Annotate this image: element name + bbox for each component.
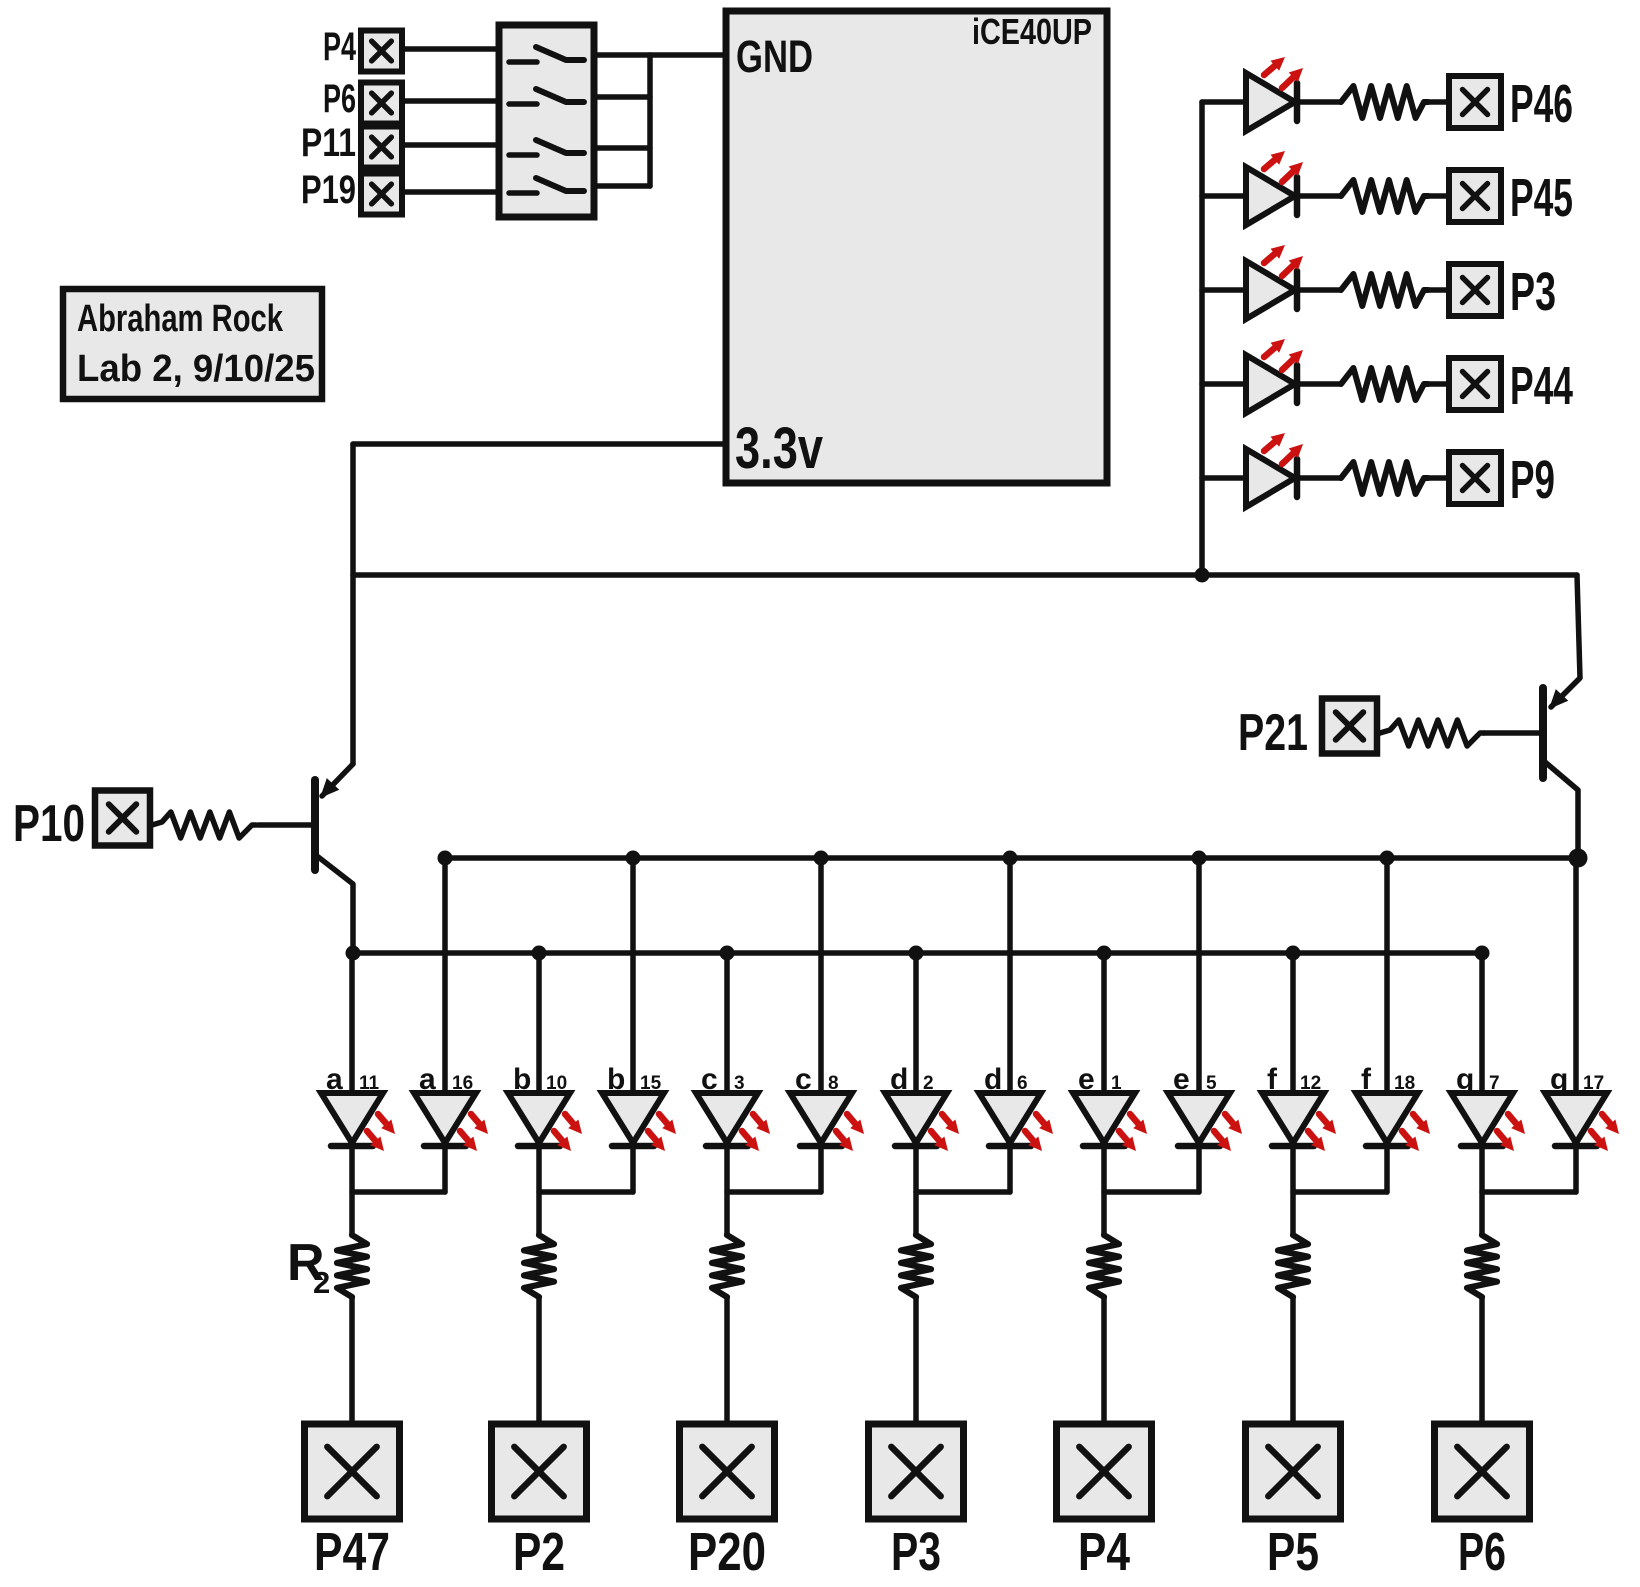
wire to LED f12 — [1290, 953, 1296, 1093]
pin terminal P4 — [361, 31, 402, 72]
pin terminal P3 — [1449, 264, 1501, 316]
resistor R P5 — [1278, 1235, 1308, 1297]
LED d2 cathode bar — [895, 1143, 937, 1150]
wire to LED b10 — [536, 953, 542, 1093]
wire resistor to pin P44 — [1428, 381, 1449, 387]
wire switch 4 output — [594, 183, 650, 189]
switch 1 contact — [509, 59, 537, 65]
LED f12 arrows — [1308, 1114, 1336, 1151]
resistor R P3 — [901, 1235, 931, 1297]
LED c3 arrows — [742, 1114, 770, 1151]
switch 3 lever — [536, 140, 584, 153]
wire to LED a11 — [349, 953, 355, 1093]
LED b15 arrows — [648, 1114, 676, 1151]
wire resistor to P4 — [1101, 1297, 1107, 1424]
LED arrows P44 — [1264, 339, 1303, 370]
resistor R-P3 — [1341, 274, 1428, 306]
switch 4 contact — [509, 190, 537, 196]
wire bus to LED P3 — [1202, 287, 1246, 293]
wire to LED d6 — [1007, 858, 1013, 1093]
wire to LED g17 — [1573, 858, 1579, 1093]
wire LED c3 down — [724, 1146, 730, 1235]
LED D-P3 — [1246, 261, 1295, 319]
resistor R P20 — [712, 1235, 742, 1297]
wire LED P45 to resistor — [1297, 193, 1341, 199]
LED a11 — [321, 1093, 383, 1143]
junction dot upper bus x1010 — [1003, 851, 1018, 866]
wire LED a11 down — [349, 1146, 355, 1235]
resistor R P2 — [524, 1235, 554, 1297]
pin terminal P6 — [361, 83, 402, 124]
LED arrows P3 — [1264, 245, 1303, 276]
wire to LED f18 — [1384, 858, 1390, 1093]
wire LED b15 down — [630, 1146, 636, 1192]
junction dot rail/LED-bus — [1195, 568, 1210, 583]
junction dot Q1/lower-bus — [346, 946, 361, 961]
resistor R-P21 — [1380, 720, 1484, 746]
wire resistor to pin P46 — [1428, 99, 1449, 105]
LED b15 — [602, 1093, 664, 1143]
junction dot upper bus x821 — [814, 851, 829, 866]
LED c8 — [790, 1093, 852, 1143]
pin terminal P3 — [869, 1424, 964, 1519]
junction dot Q2/upper-bus — [1569, 849, 1588, 868]
wire 3.3v to left — [353, 441, 726, 447]
switch box SW1 — [499, 25, 594, 217]
resistor R-P45 — [1341, 180, 1428, 212]
pin terminal P45 — [1449, 170, 1501, 222]
wire to LED e1 — [1101, 953, 1107, 1093]
wire P19 to switch — [402, 189, 499, 195]
wire collector Q2 — [1545, 762, 1578, 858]
svg-text:P47: P47 — [314, 1522, 390, 1582]
resistor R-P46 — [1341, 86, 1428, 118]
resistor R P4 — [1089, 1235, 1119, 1297]
LED e1 — [1073, 1093, 1135, 1143]
LED g7 cathode bar — [1461, 1143, 1503, 1150]
wire to LED g7 — [1479, 953, 1485, 1093]
wire LED d2 down — [913, 1146, 919, 1235]
wire LED f18 down — [1384, 1146, 1390, 1192]
wire LED P3 to resistor — [1297, 287, 1341, 293]
wire 3.3v rail — [353, 572, 1577, 578]
switch 2 lever — [536, 89, 584, 102]
emitter arrow Q1 — [320, 778, 339, 798]
wire bus to GND pin — [650, 52, 726, 58]
LED g17 cathode bar — [1555, 1143, 1597, 1150]
wire LED e5 down — [1196, 1146, 1202, 1192]
wire to LED e5 — [1196, 858, 1202, 1093]
svg-text:P5: P5 — [1267, 1522, 1319, 1582]
wire P4 to switch — [402, 46, 499, 52]
svg-text:P46: P46 — [1510, 74, 1573, 134]
svg-text:P6: P6 — [323, 77, 356, 121]
wire LED g17 down — [1573, 1146, 1579, 1192]
LED b10 arrows — [554, 1114, 582, 1151]
wire pair join f — [1293, 1189, 1387, 1195]
junction dot upper bus x1199 — [1192, 851, 1207, 866]
svg-text:P3: P3 — [1510, 262, 1556, 322]
LED e5 cathode bar — [1178, 1143, 1220, 1150]
LED e5 — [1168, 1093, 1230, 1143]
svg-text:3.3v: 3.3v — [735, 416, 823, 481]
LED D-P9 — [1246, 449, 1295, 507]
wire pair join d — [916, 1189, 1010, 1195]
resistor R P6 — [1467, 1235, 1497, 1297]
svg-text:P11: P11 — [301, 121, 356, 165]
wire base Q1 — [258, 822, 315, 828]
emitter arrow Q2 — [1549, 689, 1568, 709]
svg-text:P44: P44 — [1510, 356, 1573, 416]
wire resistor to P2 — [536, 1297, 542, 1424]
resistor R P47 — [337, 1235, 367, 1297]
transistor Q1 base bar — [311, 780, 319, 870]
switch 4 lever — [536, 178, 584, 191]
LED cathode bar P46 — [1294, 83, 1301, 121]
LED f18 cathode bar — [1366, 1143, 1408, 1150]
junction dot lower bus x1482 — [1475, 946, 1490, 961]
switch 1 lever — [536, 47, 584, 60]
LED arrows P45 — [1264, 151, 1303, 182]
svg-text:iCE40UP: iCE40UP — [972, 11, 1092, 52]
LED d2 — [885, 1093, 947, 1143]
junction dot lower bus x727 — [720, 946, 735, 961]
pin terminal P6 — [1435, 1424, 1530, 1519]
wire resistor to P3 — [913, 1297, 919, 1424]
wire LED bus up — [1199, 102, 1205, 575]
svg-text:P20: P20 — [688, 1522, 766, 1582]
transistor Q2 base bar — [1539, 688, 1547, 778]
LED b15 cathode bar — [612, 1143, 654, 1150]
wire LED e1 down — [1101, 1146, 1107, 1235]
svg-text:P4: P4 — [1078, 1522, 1130, 1582]
FPGA U1 iCE40UP — [726, 11, 1107, 483]
LED d6 cathode bar — [989, 1143, 1031, 1150]
pin terminal P46 — [1449, 76, 1501, 128]
pin terminal P19 — [361, 174, 402, 215]
wire LED P9 to resistor — [1297, 475, 1341, 481]
LED D-P45 — [1246, 167, 1295, 225]
LED b10 — [508, 1093, 570, 1143]
LED a16 cathode bar — [424, 1143, 466, 1150]
pin terminal P44 — [1449, 358, 1501, 410]
LED f18 — [1356, 1093, 1418, 1143]
wire 3.3v down — [350, 444, 356, 764]
wire LED d6 down — [1007, 1146, 1013, 1192]
lower bus wire — [353, 950, 1482, 956]
switch 2 contact — [509, 101, 537, 107]
wire LED g7 down — [1479, 1146, 1485, 1235]
LED arrows P9 — [1264, 433, 1303, 464]
wire pair join e — [1104, 1189, 1199, 1195]
LED c3 cathode bar — [706, 1143, 748, 1150]
wire to LED c8 — [818, 858, 824, 1093]
junction dot lower bus x539 — [532, 946, 547, 961]
LED d6 arrows — [1025, 1114, 1053, 1151]
resistor R-P10 — [152, 812, 256, 838]
LED g7 — [1451, 1093, 1513, 1143]
wire collector Q1 — [317, 856, 353, 953]
LED c3 — [696, 1093, 758, 1143]
LED e1 arrows — [1119, 1114, 1147, 1151]
junction dot upper bus x1387 — [1380, 851, 1395, 866]
LED b10 cathode bar — [518, 1143, 560, 1150]
wire to LED b15 — [630, 858, 636, 1093]
wire bus to LED P44 — [1202, 381, 1246, 387]
switch 3 contact — [509, 152, 537, 158]
LED c8 cathode bar — [800, 1143, 842, 1150]
wire pair join g — [1482, 1189, 1576, 1195]
wire P11 to switch — [402, 142, 499, 148]
wire rail to Q2 emitter — [1551, 575, 1580, 707]
junction dot lower bus x916 — [909, 946, 924, 961]
wire resistor to pin P9 — [1428, 475, 1449, 481]
LED cathode bar P3 — [1294, 271, 1301, 309]
junction dot upper bus x445 — [438, 851, 453, 866]
wire pair join a — [352, 1189, 445, 1195]
LED D-P44 — [1246, 355, 1295, 413]
LED d2 arrows — [931, 1114, 959, 1151]
LED f12 cathode bar — [1272, 1143, 1314, 1150]
wire resistor to P6 — [1479, 1297, 1485, 1424]
wire LED c8 down — [818, 1146, 824, 1192]
pin terminal P4 — [1057, 1424, 1152, 1519]
wire LED a16 down — [442, 1146, 448, 1192]
svg-text:P4: P4 — [323, 25, 357, 69]
wire bus to LED P45 — [1202, 193, 1246, 199]
pin terminal P9 — [1449, 452, 1501, 504]
LED c8 arrows — [836, 1114, 864, 1151]
LED g17 — [1545, 1093, 1607, 1143]
wire LED f12 down — [1290, 1146, 1296, 1235]
junction dot upper bus x633 — [626, 851, 641, 866]
wire LED P46 to resistor — [1297, 99, 1341, 105]
wire LED P44 to resistor — [1297, 381, 1341, 387]
wire P6 to switch — [402, 98, 499, 104]
wire resistor to P47 — [349, 1297, 355, 1424]
LED e5 arrows — [1214, 1114, 1242, 1151]
svg-text:P6: P6 — [1458, 1522, 1506, 1582]
svg-text:2: 2 — [313, 1265, 330, 1300]
wire to LED d2 — [913, 953, 919, 1093]
LED cathode bar P44 — [1294, 365, 1301, 403]
LED cathode bar P45 — [1294, 177, 1301, 215]
pin terminal P20 — [680, 1424, 775, 1519]
pin terminal P47 — [305, 1424, 400, 1519]
junction dot lower bus x1104 — [1097, 946, 1112, 961]
wire bus to LED P9 — [1202, 475, 1246, 481]
svg-text:GND: GND — [736, 31, 813, 82]
LED cathode bar P9 — [1294, 459, 1301, 497]
wire resistor to P5 — [1290, 1297, 1296, 1424]
svg-text:Abraham Rock: Abraham Rock — [77, 298, 284, 340]
LED f18 arrows — [1402, 1114, 1430, 1151]
LED arrows P46 — [1264, 57, 1303, 88]
LED a11 arrows — [367, 1114, 395, 1151]
wire resistor to pin P3 — [1428, 287, 1449, 293]
LED f12 — [1262, 1093, 1324, 1143]
junction dot lower bus x1293 — [1286, 946, 1301, 961]
wire LED b10 down — [536, 1146, 542, 1235]
svg-text:P19: P19 — [301, 168, 356, 212]
svg-text:P45: P45 — [1510, 168, 1573, 228]
wire resistor to pin P45 — [1428, 193, 1449, 199]
wire switch 1 output — [594, 52, 650, 58]
wire resistor to P20 — [724, 1297, 730, 1424]
wire pair join b — [539, 1189, 633, 1195]
pin terminal P11 — [361, 127, 402, 168]
svg-text:Lab 2, 9/10/25: Lab 2, 9/10/25 — [77, 348, 315, 390]
resistor R-P44 — [1341, 368, 1428, 400]
wire pair join c — [727, 1189, 821, 1195]
LED a16 arrows — [460, 1114, 488, 1151]
title box — [63, 289, 322, 399]
upper bus wire — [445, 855, 1578, 861]
pin terminal P2 — [492, 1424, 587, 1519]
svg-text:P9: P9 — [1510, 450, 1555, 510]
LED e1 cathode bar — [1083, 1143, 1125, 1150]
svg-text:P2: P2 — [513, 1522, 565, 1582]
LED d6 — [979, 1093, 1041, 1143]
LED a11 cathode bar — [331, 1143, 373, 1150]
LED g17 arrows — [1591, 1114, 1619, 1151]
wire switch output bus — [647, 55, 653, 186]
LED g7 arrows — [1497, 1114, 1525, 1151]
wire to LED a16 — [442, 858, 448, 1093]
wire base Q2 — [1484, 730, 1543, 736]
wire switch 3 output — [594, 145, 650, 151]
wire bus to LED P46 — [1202, 99, 1246, 105]
wire switch 2 output — [594, 94, 650, 100]
resistor R-P9 — [1341, 462, 1428, 494]
pin terminal P10 — [95, 791, 150, 846]
wire emitter Q1 — [322, 764, 353, 796]
pin terminal P5 — [1246, 1424, 1341, 1519]
svg-text:P3: P3 — [891, 1522, 941, 1582]
svg-text:P21: P21 — [1238, 704, 1308, 762]
LED a16 — [414, 1093, 476, 1143]
LED D-P46 — [1246, 73, 1295, 131]
wire to LED c3 — [724, 953, 730, 1093]
svg-text:P10: P10 — [13, 795, 85, 853]
pin terminal P21 — [1322, 699, 1377, 754]
